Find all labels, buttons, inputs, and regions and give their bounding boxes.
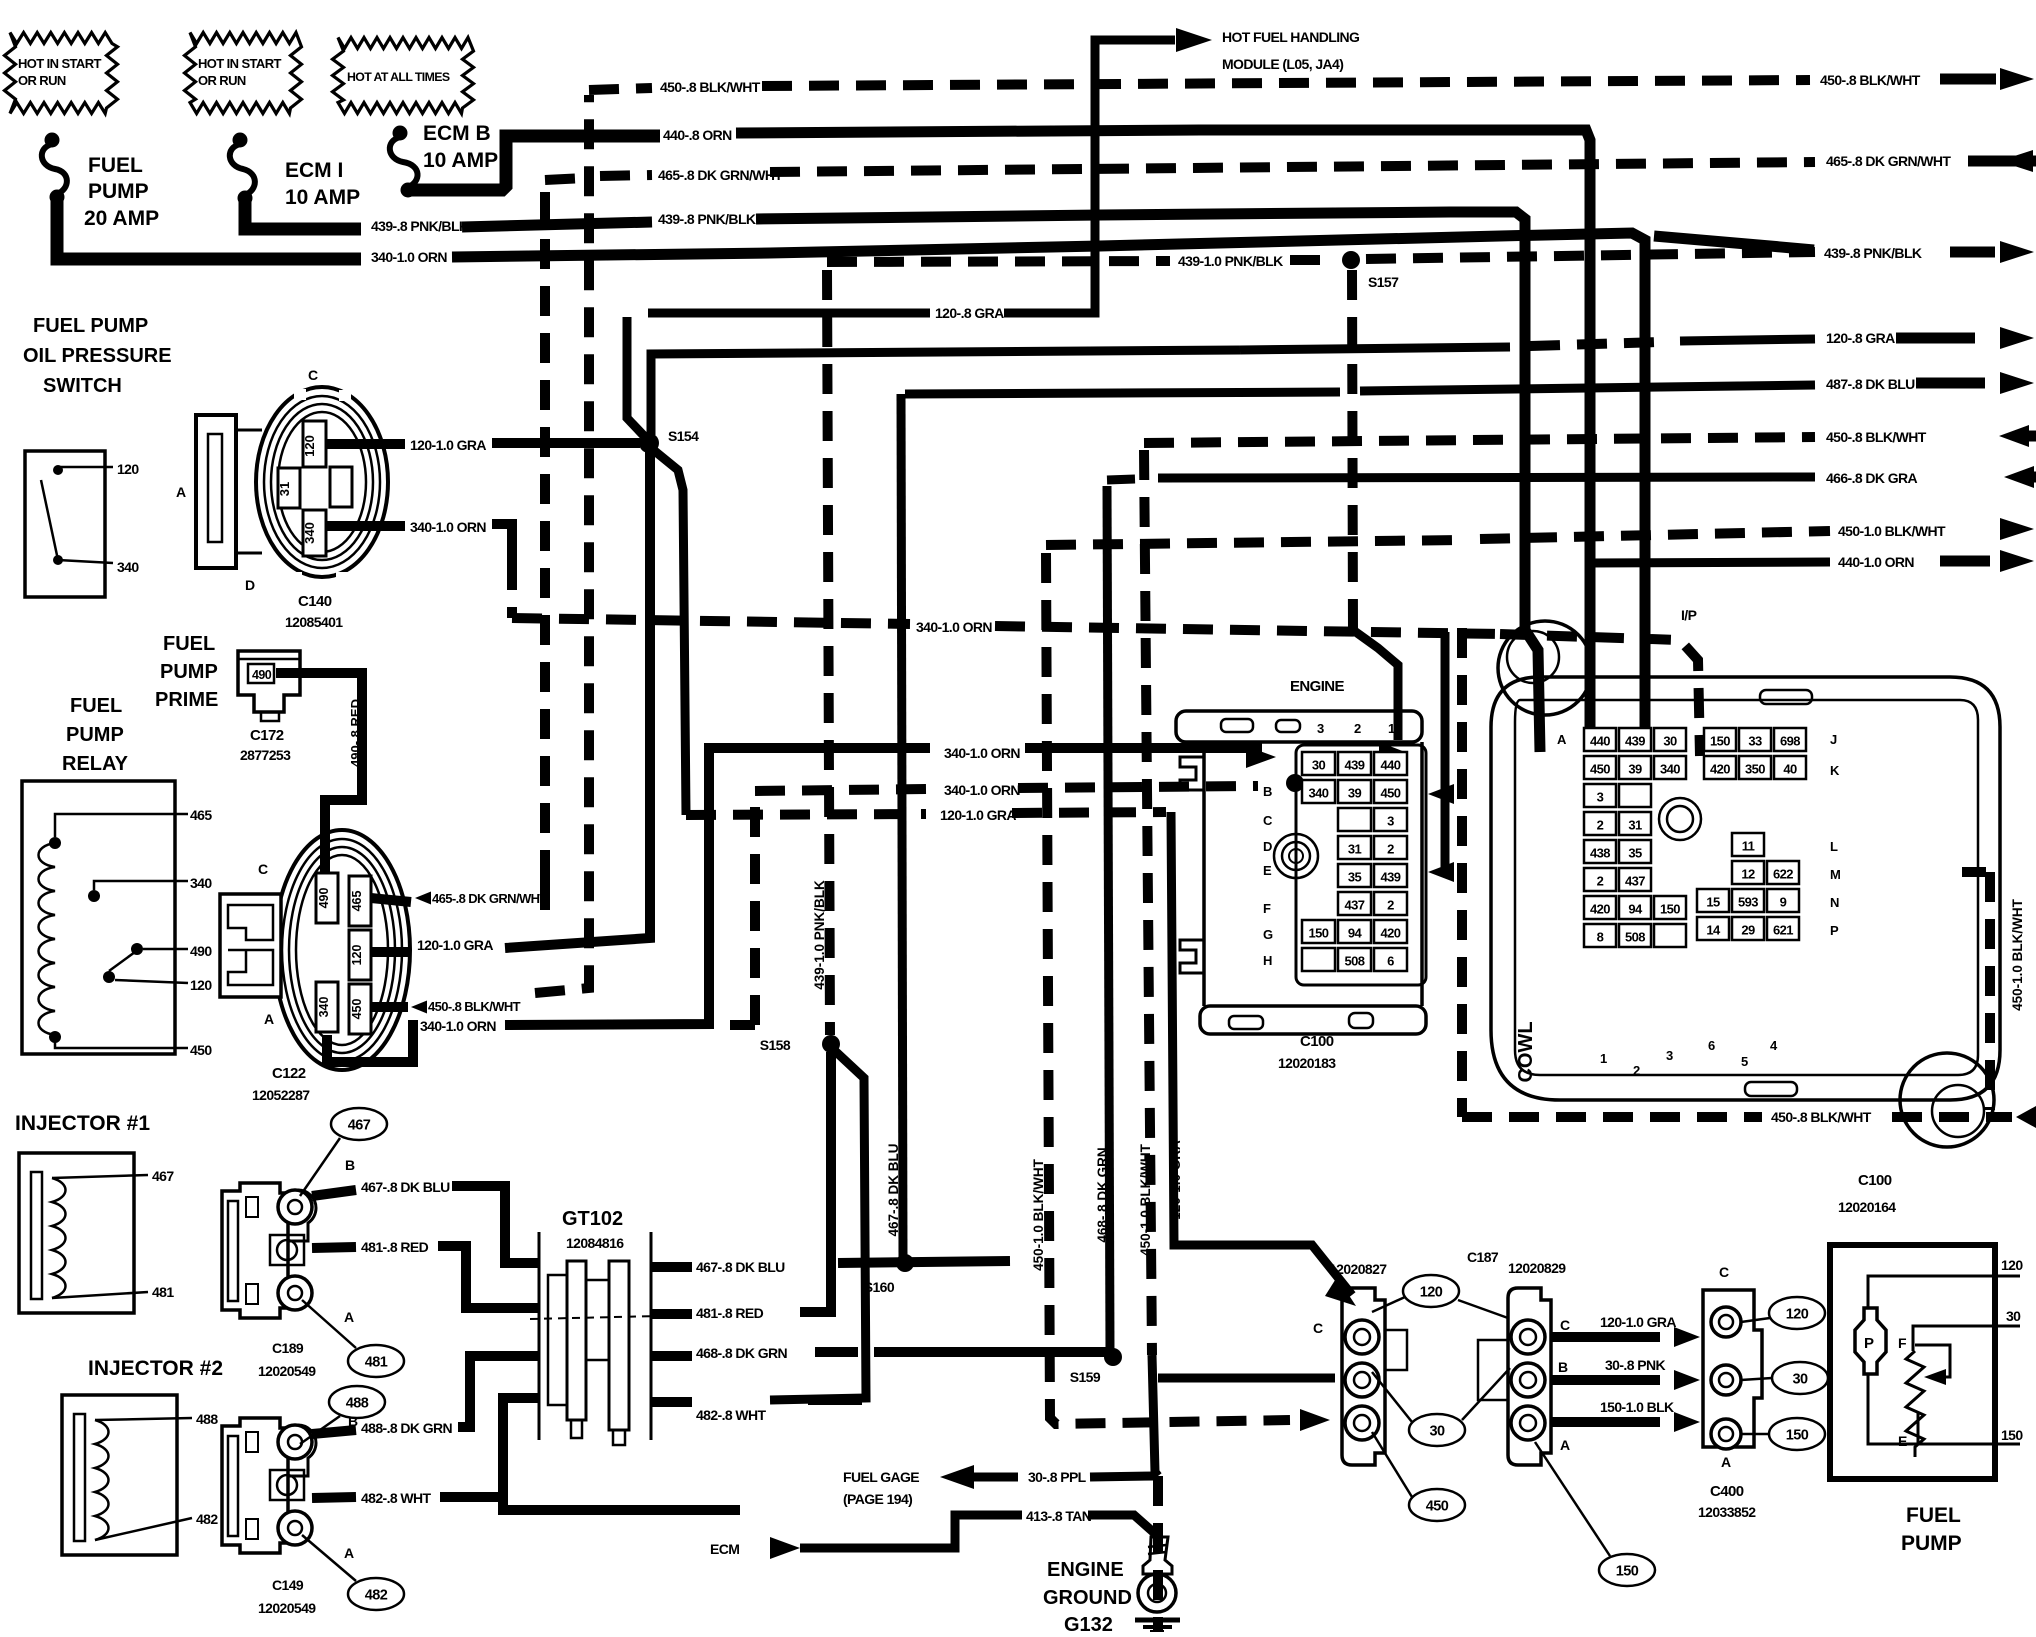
connector 12020827 [1342,1288,1385,1465]
svg-text:12020827: 12020827 [1329,1261,1387,1277]
wire 465-.8 DK GRN/WHT from C122 [371,898,411,902]
svg-text:FUEL: FUEL [70,695,122,717]
svg-text:2: 2 [1354,721,1361,736]
svg-text:450: 450 [1381,786,1401,801]
svg-text:40: 40 [1783,762,1797,777]
wire 466-.8 DK GRA row [1107,479,1135,480]
svg-text:J: J [1830,732,1837,747]
wire 465-.8 DK GRN/WHT dashed row [545,178,584,180]
svg-text:S160: S160 [864,1279,895,1295]
svg-text:8: 8 [1597,930,1604,945]
svg-text:FUEL PUMP: FUEL PUMP [33,315,148,337]
svg-text:29: 29 [1741,923,1755,938]
svg-text:ENGINE: ENGINE [1047,1559,1124,1581]
connector C189 [222,1183,288,1318]
svg-text:P: P [1864,1335,1874,1352]
svg-text:1: 1 [1388,721,1395,736]
junction at engine B row [1286,774,1304,792]
wire 440-.8 ORN row to I/P pin 440 [736,130,1590,748]
arrow into 12020827 pin A [1300,1409,1330,1431]
svg-text:C172: C172 [250,727,284,744]
svg-text:481-.8 RED: 481-.8 RED [361,1239,429,1255]
hot-in-start-or-run box 2 [185,33,302,114]
svg-text:3: 3 [1597,790,1604,805]
svg-text:466-.8 DK GRA: 466-.8 DK GRA [1826,470,1917,486]
svg-text:94: 94 [1348,926,1363,941]
svg-text:A: A [1557,732,1567,747]
svg-text:A: A [1560,1437,1570,1453]
svg-text:C: C [1560,1317,1570,1333]
wire 120-1.0 GRA from C122 to S154 [371,947,411,957]
svg-text:437: 437 [1345,898,1365,913]
wire 30-.8 PNK 829 to C400 [1552,1375,1660,1385]
wire S158 to GT102 482 wire [770,1050,866,1400]
svg-text:PUMP: PUMP [160,661,218,683]
svg-text:30-.8 PPL: 30-.8 PPL [1028,1469,1087,1485]
oval tag 120 (C187) [1403,1275,1459,1307]
wire 450-.8 BLK/WHT dashed mid row [1144,437,1815,443]
svg-text:439: 439 [1625,734,1645,749]
svg-text:20 AMP: 20 AMP [84,207,159,230]
svg-text:12020183: 12020183 [1278,1055,1336,1071]
svg-text:RELAY: RELAY [62,753,129,775]
connector C100 engine side [1176,711,1422,742]
svg-text:12033852: 12033852 [1698,1504,1756,1520]
svg-text:SWITCH: SWITCH [43,375,122,397]
svg-text:GT102: GT102 [562,1208,623,1230]
svg-text:ECM I: ECM I [285,159,343,182]
svg-text:INJECTOR #1: INJECTOR #1 [15,1112,150,1135]
svg-text:340-1.0 ORN: 340-1.0 ORN [944,782,1020,798]
svg-text:A: A [176,484,186,500]
svg-text:K: K [1830,763,1840,778]
arrow into engine block 340 [1246,746,1276,768]
svg-text:PUMP: PUMP [66,724,124,746]
svg-text:340-1.0 ORN: 340-1.0 ORN [410,519,486,535]
arrow into engine row2 450 [1428,784,1454,804]
svg-text:B: B [1558,1359,1568,1375]
splice S159 [1104,1348,1122,1366]
svg-text:6: 6 [1708,1038,1715,1053]
svg-text:A: A [264,1011,274,1027]
svg-text:C400: C400 [1710,1483,1744,1500]
svg-text:120-1.0 GRA: 120-1.0 GRA [1600,1314,1676,1330]
svg-text:450-.8 BLK/WHT: 450-.8 BLK/WHT [428,999,521,1014]
svg-text:120-1.0 GRA: 120-1.0 GRA [940,807,1016,823]
wire 467-.8 DK BLU GT102 right [651,1262,692,1272]
svg-text:E: E [1898,1433,1907,1449]
label 465-.8 DK GRN/WHT (C122) [415,892,431,905]
svg-text:150: 150 [2001,1427,2023,1443]
svg-text:30: 30 [1663,734,1677,749]
svg-text:150: 150 [1660,902,1680,917]
svg-text:340: 340 [302,522,317,544]
svg-text:M: M [1830,867,1840,882]
oval tag 467 (C189) [331,1108,387,1140]
svg-text:120: 120 [302,435,317,457]
oval tag 481 (C189) [348,1345,404,1377]
svg-text:GROUND: GROUND [1043,1587,1132,1609]
wire 450-.8 BLK/WHT bottom dashed row [1462,1112,1762,1122]
svg-text:450-.8 BLK/WHT: 450-.8 BLK/WHT [1820,72,1921,88]
svg-text:150: 150 [1710,734,1730,749]
svg-text:B: B [345,1157,355,1173]
svg-text:420: 420 [1590,902,1610,917]
svg-text:E: E [1263,863,1272,878]
svg-text:508: 508 [1625,930,1645,945]
svg-text:I/P: I/P [1681,607,1697,623]
wire 340-1.0 ORN from C140 pin [326,521,405,531]
wire 439-1.0 PNK/BLK dashed vertical V827 [827,270,830,1035]
wire GT102 bottom stub [503,1452,740,1510]
svg-text:S159: S159 [1070,1369,1101,1385]
svg-text:488: 488 [346,1396,369,1412]
svg-text:5: 5 [1741,1054,1748,1069]
svg-text:622: 622 [1773,867,1793,882]
svg-text:467: 467 [152,1168,174,1184]
svg-text:490: 490 [317,888,331,909]
wire 340-1.0 ORN dashed riser V755 [730,1020,755,1030]
svg-text:S154: S154 [668,428,699,444]
wire 482-.8 WHT GT102 right [651,1397,692,1407]
oval tag 488 (C149) [329,1386,385,1418]
svg-text:467-.8 DK BLU: 467-.8 DK BLU [361,1179,450,1195]
svg-text:440: 440 [1381,758,1401,773]
svg-text:420: 420 [1710,762,1730,777]
wire 440-1.0 ORN row [1590,562,1830,563]
svg-text:L: L [1830,839,1838,854]
svg-text:488-.8 DK GRN: 488-.8 DK GRN [361,1420,452,1436]
wire 120-.8 GRA to hot fuel module [627,317,646,438]
svg-text:467: 467 [348,1118,371,1134]
connector C400 [1703,1290,1762,1447]
svg-text:340: 340 [1309,786,1329,801]
svg-text:2: 2 [1597,874,1604,889]
splice S158 [822,1035,840,1053]
wire 340-1.0 ORN to I/P pin (solid row y=255) [452,233,1645,742]
svg-text:120-1.0 GRA: 120-1.0 GRA [410,437,486,453]
svg-text:437: 437 [1625,874,1645,889]
wire 450-1.0 BLK/WHT dashed vertical V1046 [1046,553,1290,1424]
svg-text:PUMP: PUMP [88,180,149,203]
svg-text:ECM B: ECM B [423,122,491,145]
svg-text:94: 94 [1628,902,1643,917]
svg-text:120-1.0 GRA: 120-1.0 GRA [417,937,493,953]
svg-text:14: 14 [1706,923,1721,938]
svg-text:340: 340 [1660,762,1680,777]
svg-text:FUEL: FUEL [1906,1504,1961,1527]
svg-text:30: 30 [2006,1308,2021,1324]
svg-text:C: C [1719,1264,1729,1280]
svg-text:35: 35 [1628,846,1642,861]
connector C140 [256,387,388,577]
svg-text:482-.8 WHT: 482-.8 WHT [361,1490,432,1506]
arrow right 450-1.0 BLK/WHT [2000,518,2034,540]
svg-text:12: 12 [1741,867,1755,882]
svg-text:340: 340 [117,559,139,575]
svg-text:S158: S158 [760,1037,791,1053]
svg-text:2: 2 [1597,818,1604,833]
svg-text:482: 482 [365,1588,388,1604]
svg-text:450: 450 [350,999,364,1020]
arrow to hot fuel handling module [1176,28,1212,52]
svg-text:C140: C140 [298,593,332,610]
wire 413-.8 TAN to ground [1088,1515,1160,1538]
arrow right 439-.8 PNK/BLK [1950,247,1995,258]
wire 30 branch to 12020827 pin B [1158,1374,1335,1383]
svg-text:120-.8 GRA: 120-.8 GRA [1826,330,1895,346]
svg-text:481-.8 RED: 481-.8 RED [696,1305,764,1321]
svg-text:413-.8 TAN: 413-.8 TAN [1026,1508,1092,1524]
svg-text:439-.8 PNK/BLK: 439-.8 PNK/BLK [1824,245,1922,261]
svg-text:P: P [1830,923,1839,938]
splice S154 [639,433,659,453]
arrow left-in 466-.8 DK GRA [2004,466,2034,488]
svg-text:D: D [245,577,255,593]
svg-text:11: 11 [1742,839,1755,854]
svg-text:33: 33 [1748,734,1762,749]
svg-text:120: 120 [190,977,212,993]
svg-text:340-1.0 ORN: 340-1.0 ORN [944,745,1020,761]
svg-text:482-.8 WHT: 482-.8 WHT [696,1407,767,1423]
svg-text:350: 350 [1745,762,1765,777]
svg-text:120: 120 [350,945,364,966]
svg-text:3: 3 [1387,814,1394,829]
arrow left-in 450-.8 BLK/WHT [1999,425,2029,447]
svg-text:ENGINE: ENGINE [1290,678,1345,695]
svg-text:10 AMP: 10 AMP [423,149,498,172]
arrow left-in 465-.8 DK GRN/WHT [1968,156,2036,167]
svg-text:150: 150 [1309,926,1329,941]
svg-text:440-.8 ORN: 440-.8 ORN [663,127,732,143]
svg-text:490-.8 RED: 490-.8 RED [348,699,363,767]
svg-text:508: 508 [1345,954,1365,969]
svg-text:150: 150 [1786,1428,1809,1444]
svg-text:31: 31 [1348,842,1362,857]
arrow into 12020827 pin C [1325,1277,1356,1306]
svg-text:2877253: 2877253 [240,747,291,763]
wire 340-1.0 ORN dashed vertical from C140 [507,560,517,618]
arrow right 487-.8 DK BLU [1916,378,1985,389]
fuel pump internals [1830,1245,1995,1479]
injector #1 box [19,1153,134,1313]
svg-text:C122: C122 [272,1065,306,1082]
svg-text:(PAGE 194): (PAGE 194) [843,1491,912,1507]
svg-text:120: 120 [117,461,139,477]
svg-text:FUEL: FUEL [163,633,215,655]
svg-text:468-.8 DK GRN: 468-.8 DK GRN [696,1345,787,1361]
svg-text:C: C [258,861,268,877]
fuse ECM I 10 AMP [233,133,248,148]
svg-text:B: B [1263,784,1272,799]
wire 468-.8 DK GRN GT102 right [651,1351,692,1361]
svg-text:12020829: 12020829 [1508,1260,1566,1276]
svg-text:481: 481 [152,1284,174,1300]
svg-text:12052287: 12052287 [252,1087,310,1103]
svg-text:39: 39 [1628,762,1642,777]
splice S157 [1342,251,1360,269]
svg-text:2: 2 [1387,842,1394,857]
svg-text:10 AMP: 10 AMP [285,186,360,209]
wire 450-.8 BLK/WHT top dashed row [589,88,652,90]
svg-text:340-1.0 ORN: 340-1.0 ORN [916,619,992,635]
svg-text:D: D [1263,839,1272,854]
svg-text:450: 450 [1426,1499,1449,1515]
svg-text:490: 490 [252,668,272,682]
svg-text:488: 488 [196,1411,218,1427]
svg-text:C: C [1263,813,1273,828]
svg-text:A: A [1721,1454,1731,1470]
arrow right 120-.8 GRA [1896,333,1975,344]
svg-text:INJECTOR #2: INJECTOR #2 [88,1357,223,1380]
wire ECM to 413-.8 TAN [770,1537,800,1559]
svg-text:467-.8 DK BLU: 467-.8 DK BLU [696,1259,785,1275]
connector GT102 pictorial [538,1232,541,1440]
wire 120-1.0 GRA from C140 pin [326,439,405,449]
wire 450-1.0 BLK/WHT right dashed riser [1962,867,1986,877]
connector 12020829 [1508,1288,1551,1465]
engine ground G132 terminal [1143,1537,1172,1574]
svg-text:F: F [1898,1335,1907,1351]
svg-text:30: 30 [1793,1372,1808,1388]
svg-text:621: 621 [1773,923,1793,938]
wire 468-.8 DK GRN vertical V1110 [1107,486,1110,1352]
svg-text:C: C [308,367,318,383]
wire 467-.8 DK BLU C189 to GT102 [312,1190,356,1196]
svg-text:H: H [1263,953,1272,968]
svg-text:450: 450 [1590,762,1610,777]
svg-text:12020549: 12020549 [258,1600,316,1616]
fuse ECM B 10 AMP [393,126,408,141]
svg-text:12085401: 12085401 [285,614,343,630]
svg-text:450-1.0 BLK/WHT: 450-1.0 BLK/WHT [2010,898,2025,1011]
arrow into engine fuse 440 [1379,742,1405,762]
svg-text:340-1.0 ORN: 340-1.0 ORN [420,1018,496,1034]
svg-text:C149: C149 [272,1577,304,1593]
svg-text:PRIME: PRIME [155,689,218,711]
connector C100 I/P side [1491,677,2000,1100]
wire 490-.8 RED from C172 [276,673,362,873]
wire fuel pump fuse to 340-1.0 ORN [57,197,361,259]
svg-text:3: 3 [1317,721,1324,736]
wire 30-.8 PPL to fuel gage [1090,1476,1155,1477]
svg-text:2: 2 [1387,898,1394,913]
svg-text:120-.8 GRA: 120-.8 GRA [935,305,1004,321]
svg-text:15: 15 [1706,895,1720,910]
oval tag 30 (C187) [1409,1414,1465,1446]
svg-text:120: 120 [1420,1285,1443,1301]
arrow right 440-1.0 ORN [1940,556,1990,567]
wire 467-.8 DK BLU vertical V905 [901,394,903,1258]
wire S154 second riser to 120-.8 GRA right arrow [651,350,1240,435]
svg-text:465: 465 [350,891,364,912]
svg-text:420: 420 [1381,926,1401,941]
arrow left-in 450-.8 BLK/WHT bottom [2016,1106,2036,1128]
wire 120-1.0 GRA 829 to C400 [1552,1332,1660,1342]
oval tag 150 (C187 829) [1599,1554,1655,1586]
wire pump 120 internal [1868,1276,2020,1309]
splice S160 [896,1254,914,1272]
svg-text:698: 698 [1780,734,1800,749]
arrow right 450-.8 BLK/WHT [1940,74,1996,85]
svg-text:340: 340 [317,997,331,1018]
svg-text:450-1.0 BLK/WHT: 450-1.0 BLK/WHT [1031,1158,1046,1271]
svg-text:593: 593 [1738,895,1758,910]
svg-text:340: 340 [190,875,212,891]
wire engine right-side feeder [1441,632,1450,868]
svg-text:FUEL: FUEL [88,154,143,177]
svg-text:465-.8 DK GRN/WHT: 465-.8 DK GRN/WHT [658,167,783,183]
svg-text:30-.8 PNK: 30-.8 PNK [1605,1357,1665,1373]
svg-text:440-1.0 ORN: 440-1.0 ORN [1838,554,1914,570]
connector C122 [274,830,410,1070]
svg-text:439-.8 PNK/BLK: 439-.8 PNK/BLK [658,211,756,227]
hot-in-start-or-run box 1 [5,33,118,114]
svg-text:G: G [1263,927,1273,942]
svg-text:31: 31 [1628,818,1642,833]
svg-text:467-.8 DK BLU: 467-.8 DK BLU [886,1143,901,1236]
svg-text:OIL PRESSURE: OIL PRESSURE [23,345,172,367]
svg-text:439: 439 [1381,870,1401,885]
wire 340-1.0 ORN from C122 bottom [327,1025,418,1062]
svg-text:12020164: 12020164 [1838,1199,1896,1215]
svg-text:450-1.0 BLK/WHT: 450-1.0 BLK/WHT [1138,1143,1153,1256]
svg-text:ECM: ECM [710,1541,739,1557]
cowl boundary dashed [1457,628,1467,1117]
relay box with coil and contacts [22,781,175,1054]
svg-text:490: 490 [190,943,212,959]
arrow into engine row5 439 [1428,862,1454,882]
svg-text:PUMP: PUMP [1901,1532,1962,1555]
wire 450-.8 BLK/WHT dashed vertical V1152 [1144,450,1152,1355]
svg-text:120: 120 [1786,1307,1809,1323]
wire ECM I fuse to 439-.8 PNK/BLK [245,198,361,229]
svg-text:465: 465 [190,807,212,823]
svg-text:9: 9 [1780,895,1787,910]
wire S157 dashed vertical [1352,270,1353,630]
svg-text:OR RUN: OR RUN [18,73,66,88]
svg-text:439-1.0 PNK/BLK: 439-1.0 PNK/BLK [1178,253,1283,269]
svg-text:C100: C100 [1858,1172,1892,1189]
svg-text:G132: G132 [1064,1614,1113,1632]
svg-text:465-.8 DK GRN/WHT: 465-.8 DK GRN/WHT [432,891,547,906]
svg-text:S157: S157 [1368,274,1399,290]
hot-at-all-times box 3 [333,38,474,114]
svg-text:30: 30 [1430,1424,1445,1440]
wire 439-.8 row to I/P [756,212,1540,752]
svg-text:12020549: 12020549 [258,1363,316,1379]
oval tag 120 (C400) [1769,1297,1825,1329]
injector #2 box [62,1395,177,1555]
wire 150-1.0 BLK 829 to C400 [1552,1417,1660,1427]
svg-text:35: 35 [1348,870,1362,885]
svg-text:C187: C187 [1467,1249,1499,1265]
svg-text:440: 440 [1590,734,1610,749]
svg-text:482: 482 [196,1511,218,1527]
svg-text:450-.8 BLK/WHT: 450-.8 BLK/WHT [1771,1109,1872,1125]
svg-text:FUEL GAGE: FUEL GAGE [843,1469,919,1485]
label 450-.8 BLK/WHT (C122) [411,1001,427,1014]
svg-text:439: 439 [1345,758,1365,773]
wire 120-1.0 GRA dashed row from S154 drop [651,448,686,815]
svg-text:468-.8 DK GRN: 468-.8 DK GRN [1095,1147,1110,1242]
svg-text:487-.8 DK BLU: 487-.8 DK BLU [1826,376,1915,392]
svg-text:439-.8 PNK/BLK: 439-.8 PNK/BLK [371,218,469,234]
svg-text:31: 31 [277,482,292,496]
svg-text:438: 438 [1590,846,1610,861]
svg-text:120-1.0 GRA: 120-1.0 GRA [1168,1140,1183,1220]
oval tag 450 (C187) [1409,1489,1465,1521]
